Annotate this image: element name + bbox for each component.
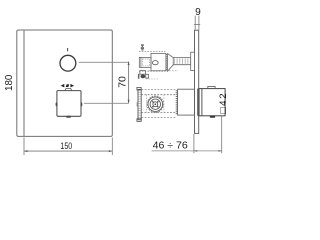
dimension extension 9 left — [194, 16, 196, 30]
in-wall housing rect — [178, 89, 195, 115]
handle side view base ring line — [201, 89, 203, 116]
housing hidden top edge — [142, 88, 177, 90]
bleed screw steps — [141, 44, 144, 45]
dimension arrow handle end — [218, 150, 221, 152]
dimension line 46 76 — [152, 150, 222, 152]
stop valve small rect — [140, 71, 146, 75]
dimension extension line 150 left — [23, 137, 25, 155]
spindle cone — [168, 54, 174, 72]
body circle middle — [150, 99, 160, 109]
knob index tick — [67, 48, 69, 51]
body circle inner — [153, 102, 158, 107]
dimension extension handle end — [221, 116, 223, 153]
dimension arrow 150 left — [24, 150, 28, 152]
handle direction middle mark — [66, 84, 70, 87]
body hidden right vertical — [163, 95, 165, 113]
body hidden top line — [141, 94, 175, 96]
spindle shaft bottom line — [173, 64, 191, 66]
svg-text:9: 9 — [195, 7, 201, 18]
dimension extension wall face — [193, 134, 195, 153]
body flange mid bump — [137, 103, 138, 106]
dimension arrow wall face — [194, 150, 197, 152]
body thread band — [176, 90, 178, 114]
dimension line 70 — [128, 62, 130, 104]
cartridge hidden bottom line — [139, 70, 166, 72]
dimension extension 9 right — [198, 16, 200, 30]
housing hidden bottom edge — [142, 116, 177, 118]
wall plate edge-on side view — [195, 30, 199, 133]
dimension line 150 — [24, 150, 112, 152]
body flange top tab — [137, 87, 141, 90]
stop valve left nub — [138, 74, 140, 79]
front plate outer rectangle — [17, 30, 113, 136]
dimension tick 9 — [194, 24, 200, 26]
svg-text:□42: □42 — [218, 92, 229, 114]
body circle outer — [148, 97, 163, 112]
handle side view base dark band — [197, 89, 199, 116]
stop valve side rect — [146, 74, 149, 78]
knob leader line — [79, 61, 129, 63]
handle direction arrow right — [70, 84, 74, 88]
handle side view bottom tab — [210, 116, 215, 118]
stop valve hidden line lower — [146, 78, 158, 80]
handle bottom tab — [66, 116, 71, 118]
dimension extension line 150 right — [111, 137, 113, 155]
body flange strip — [138, 89, 141, 119]
body flange bottom tab — [137, 119, 141, 122]
stop valve dark oval — [141, 75, 146, 79]
dimension arrow 70 top — [128, 62, 130, 66]
cartridge ellipse detail — [152, 61, 158, 65]
spindle shaft thread marks — [174, 58, 191, 64]
handle top trapezoid bump — [65, 88, 72, 90]
handle side view box — [199, 89, 225, 116]
body circle outer dashed — [147, 96, 164, 113]
stop valve hidden line — [149, 70, 178, 72]
handle leader line — [84, 102, 129, 104]
body flange stripes — [139, 90, 141, 120]
cartridge thread band — [165, 54, 167, 71]
front plate inner left edge line — [23, 30, 25, 136]
cartridge inner dashed rect — [142, 59, 149, 66]
svg-text:70: 70 — [118, 76, 129, 88]
handle direction arrow left — [61, 84, 65, 88]
spindle collar at plate — [191, 52, 195, 70]
svg-text:46 ÷ 76: 46 ÷ 76 — [153, 141, 189, 152]
cartridge left bracket — [139, 57, 141, 67]
valve main block — [151, 53, 166, 70]
body hidden left vertical — [146, 95, 148, 113]
handle right side tab — [80, 102, 82, 106]
body hidden bottom line — [141, 111, 175, 113]
knob circle — [60, 55, 76, 71]
handle left side tab — [56, 102, 58, 106]
body circle center dot — [155, 103, 157, 105]
svg-text:180: 180 — [4, 74, 15, 91]
cartridge body rect — [141, 57, 151, 67]
handle square — [57, 91, 81, 117]
handle side view top button — [208, 87, 215, 89]
dimension arrow 150 right — [109, 150, 113, 152]
dimension arrow 70 bottom — [128, 100, 130, 104]
svg-text:150: 150 — [60, 141, 72, 151]
spindle shaft top line — [173, 57, 191, 59]
body circle screw dots — [152, 101, 154, 103]
cartridge hidden top line — [139, 50, 166, 52]
